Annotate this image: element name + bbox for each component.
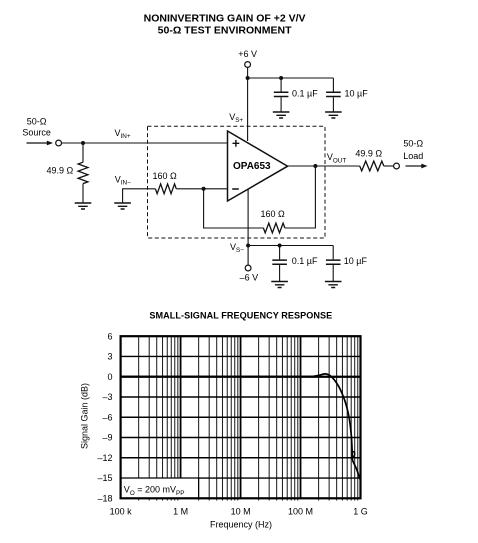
terminal +6V: [245, 62, 251, 68]
junction inverting node: [202, 187, 206, 191]
svg-text:100 M: 100 M: [288, 506, 313, 516]
resistor R1 49.9 ohm input termination: [82, 143, 84, 162]
frequency response curve: [122, 374, 361, 480]
svg-text:Frequency (Hz): Frequency (Hz): [210, 520, 272, 530]
svg-text:0.1 µF: 0.1 µF: [292, 256, 318, 266]
load output arrow: [406, 165, 422, 167]
terminal input: [56, 140, 62, 146]
svg-text:49.9 Ω: 49.9 Ω: [355, 149, 382, 159]
wire +6V supply vertical to op-amp V_S+ pin: [247, 67, 249, 141]
svg-text:NONINVERTING GAIN OF +2 V/V: NONINVERTING GAIN OF +2 V/V: [144, 12, 306, 24]
svg-text:6: 6: [107, 331, 112, 341]
wire top decoupling rail: [248, 77, 334, 79]
svg-text:–6: –6: [102, 412, 112, 422]
chart major decade gridlines: [181, 336, 301, 498]
op-amp U1 OPA653: [228, 131, 288, 201]
dashed test-fixture boundary box: [148, 126, 326, 238]
wire inverting input net with ground stub: [123, 189, 228, 203]
svg-text:100 k: 100 k: [110, 506, 133, 516]
ground below C4: [325, 282, 342, 288]
svg-text:SMALL-SIGNAL FREQUENCY RESPONS: SMALL-SIGNAL FREQUENCY RESPONSE: [149, 310, 332, 320]
svg-text:10 µF: 10 µF: [345, 89, 369, 99]
ground below C1: [273, 112, 290, 118]
capacitor C3 0.1uF: [279, 246, 281, 282]
pin + noninverting input mark: [233, 140, 240, 147]
svg-text:VS+: VS+: [229, 112, 243, 124]
curve glitch knot near 700 MHz: [352, 452, 354, 458]
junction input at R1: [81, 141, 85, 145]
pin - inverting input mark: [232, 188, 239, 190]
svg-text:50-Ω: 50-Ω: [403, 138, 423, 148]
chart plot border: [121, 336, 361, 498]
svg-text:–18: –18: [97, 494, 112, 504]
svg-text:VOUT: VOUT: [327, 152, 346, 164]
chart horizontal gridlines: [121, 356, 361, 478]
svg-text:Source: Source: [22, 127, 51, 137]
chart 0dB emphasized gridline: [121, 376, 361, 378]
svg-text:10 µF: 10 µF: [344, 256, 368, 266]
svg-text:50-Ω TEST ENVIRONMENT: 50-Ω TEST ENVIRONMENT: [158, 24, 292, 36]
svg-text:1 G: 1 G: [353, 506, 368, 516]
svg-text:Load: Load: [403, 151, 423, 161]
wire feedback path: [204, 166, 316, 228]
svg-text:0: 0: [107, 372, 112, 382]
junction output at feedback: [313, 164, 317, 168]
svg-text:50-Ω: 50-Ω: [27, 117, 47, 127]
svg-text:10 M: 10 M: [231, 506, 251, 516]
svg-text:Signal Gain (dB): Signal Gain (dB): [79, 383, 89, 449]
annotation box V_O = 200 mVpp: [121, 478, 199, 498]
svg-text:3: 3: [107, 352, 112, 362]
terminal -6V: [245, 265, 251, 271]
chart minor log gridlines: [139, 336, 358, 500]
terminal output: [394, 163, 400, 169]
wire to -6V terminal: [247, 246, 249, 266]
wire V_S- pin to negative rail: [247, 189, 249, 245]
svg-text:–6 V: –6 V: [240, 273, 259, 283]
svg-text:VIN−: VIN−: [115, 174, 131, 186]
capacitor C2 10uF: [332, 78, 334, 112]
ground below C2: [325, 112, 342, 118]
svg-text:OPA653: OPA653: [233, 161, 271, 172]
capacitor C4 10uF: [332, 246, 334, 282]
svg-text:0.1 µF: 0.1 µF: [292, 89, 318, 99]
wire negative decoupling rail: [248, 245, 333, 247]
junction top rail at C1: [279, 76, 283, 80]
junction top rail at supply wire: [246, 76, 250, 80]
resistor R2 160 ohm inverting input: [155, 183, 176, 194]
svg-text:–9: –9: [102, 433, 112, 443]
ground below C3: [271, 282, 288, 288]
junction negative rail at supply wire: [246, 244, 250, 248]
wire noninverting input net: [62, 142, 228, 144]
svg-text:–12: –12: [97, 453, 112, 463]
capacitor C1 0.1uF: [280, 78, 282, 112]
svg-text:160 Ω: 160 Ω: [261, 209, 286, 219]
svg-text:–3: –3: [102, 392, 112, 402]
svg-text:VIN+: VIN+: [115, 128, 131, 140]
source input arrow: [27, 142, 48, 144]
svg-text:1 M: 1 M: [173, 506, 188, 516]
ground at V_IN- stub: [114, 203, 131, 209]
svg-text:VS−: VS−: [230, 242, 244, 254]
junction negative rail at C3: [278, 244, 282, 248]
svg-text:–15: –15: [97, 473, 112, 483]
svg-text:160 Ω: 160 Ω: [153, 171, 178, 181]
resistor R4 49.9 ohm output series: [360, 161, 384, 171]
svg-text:49.9 Ω: 49.9 Ω: [47, 166, 74, 176]
resistor R3 160 ohm feedback: [264, 222, 285, 233]
wire output net: [288, 165, 360, 167]
ground below R1: [75, 203, 92, 209]
svg-text:+6 V: +6 V: [238, 49, 257, 59]
